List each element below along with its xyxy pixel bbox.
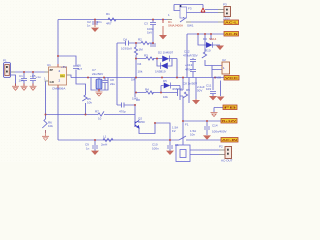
svg-text:AC-IN: AC-IN — [222, 138, 238, 142]
svg-text:+C13: +C13 — [185, 63, 193, 67]
svg-text:D3: D3 — [203, 37, 207, 41]
svg-text:P2: P2 — [219, 145, 223, 149]
svg-text:R9: R9 — [186, 88, 190, 92]
svg-text:P3: P3 — [223, 3, 227, 7]
svg-text:R7: R7 — [95, 110, 99, 114]
svg-text:F3: F3 — [188, 7, 192, 11]
svg-text:C4: C4 — [123, 38, 127, 42]
svg-text:R4: R4 — [145, 88, 149, 92]
svg-text:4u7: 4u7 — [77, 67, 82, 71]
svg-text:K1: K1 — [175, 143, 179, 147]
svg-text:CH: CH — [60, 74, 64, 78]
svg-text:L1: L1 — [103, 135, 107, 139]
svg-text:1n: 1n — [86, 147, 90, 151]
svg-text:B+12V: B+12V — [222, 119, 237, 123]
svg-text:103: 103 — [206, 87, 211, 91]
svg-text:103/1kV: 103/1kV — [121, 47, 132, 51]
svg-text:10n: 10n — [190, 133, 195, 137]
svg-text:SS14: SS14 — [209, 37, 217, 41]
svg-text:1N5819: 1N5819 — [155, 70, 166, 74]
svg-text:VCC: VCC — [225, 76, 239, 80]
svg-text:AC-N: AC-N — [225, 32, 239, 36]
svg-text:P1: P1 — [3, 59, 7, 63]
svg-text:8P: 8P — [50, 68, 54, 72]
svg-text:10k: 10k — [87, 101, 92, 105]
svg-text:50V: 50V — [197, 89, 202, 93]
svg-text:U2: U2 — [222, 58, 226, 62]
svg-text:R8: R8 — [136, 98, 140, 102]
svg-text:104: 104 — [19, 79, 24, 83]
svg-text:10k: 10k — [138, 70, 143, 74]
svg-text:4N35: 4N35 — [214, 76, 222, 80]
svg-text:U1: U1 — [47, 63, 51, 67]
svg-text:1M: 1M — [139, 48, 144, 52]
svg-text:470uF/35V: 470uF/35V — [183, 54, 198, 58]
svg-text:SW1: SW1 — [187, 24, 194, 28]
svg-text:+1u: +1u — [36, 75, 41, 79]
svg-text:4R7: 4R7 — [106, 22, 112, 26]
svg-text:10: 10 — [98, 117, 102, 121]
svg-text:C14: C14 — [212, 124, 218, 128]
svg-text:1kV: 1kV — [147, 31, 152, 35]
svg-text:F2: F2 — [172, 129, 176, 133]
svg-text:AC-OUT: AC-OUT — [221, 159, 233, 163]
svg-text:R3: R3 — [144, 54, 148, 58]
svg-text:100n/400V: 100n/400V — [212, 130, 227, 134]
svg-text:10k: 10k — [48, 124, 53, 128]
svg-text:D4: D4 — [138, 62, 142, 66]
svg-text:230V: 230V — [223, 17, 230, 21]
svg-text:2mH: 2mH — [101, 143, 107, 147]
svg-text:1n: 1n — [87, 24, 91, 28]
svg-text:R1: R1 — [106, 12, 110, 16]
svg-text:10k: 10k — [163, 95, 168, 99]
svg-text:470u: 470u — [185, 68, 192, 72]
svg-text:100n: 100n — [152, 147, 159, 151]
svg-text:SMAJ400A: SMAJ400A — [168, 24, 183, 28]
svg-text:R10: R10 — [205, 49, 211, 53]
svg-text:8050: 8050 — [138, 120, 145, 124]
svg-text:CM6806A: CM6806A — [52, 87, 65, 91]
svg-text:4N60M: 4N60M — [172, 87, 182, 91]
svg-text:C1: C1 — [19, 74, 23, 78]
svg-text:22u/50V: 22u/50V — [92, 72, 103, 76]
svg-text:R2: R2 — [138, 38, 142, 42]
svg-text:1M: 1M — [131, 78, 136, 82]
svg-text:+5V: +5V — [61, 65, 66, 69]
svg-text:AC-L: AC-L — [225, 21, 238, 25]
svg-text:D2 1N4007: D2 1N4007 — [158, 51, 174, 55]
svg-text:10n: 10n — [97, 20, 102, 24]
svg-text:22u: 22u — [110, 82, 115, 86]
svg-text:C3: C3 — [144, 22, 148, 26]
svg-text:F1: F1 — [185, 123, 189, 127]
svg-text:D5: D5 — [163, 79, 167, 83]
svg-text:470p: 470p — [119, 110, 126, 114]
svg-text:C8 1n/50V: C8 1n/50V — [183, 82, 197, 86]
